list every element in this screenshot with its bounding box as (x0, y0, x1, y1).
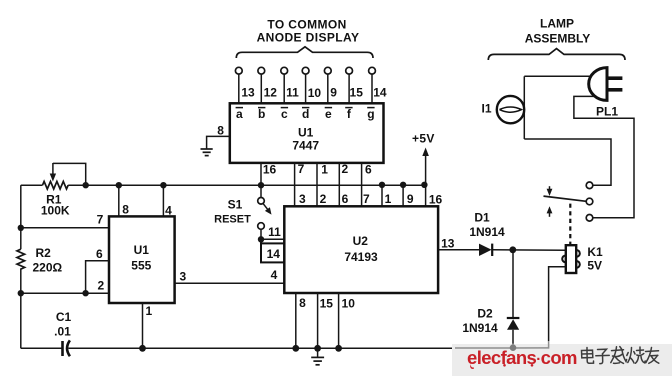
junction dot S1 pin11 (258, 236, 264, 242)
svg-text:16: 16 (429, 192, 443, 206)
svg-text:4: 4 (271, 268, 278, 282)
svg-text:3: 3 (180, 269, 187, 283)
svg-text:7: 7 (363, 192, 370, 206)
svg-text:3: 3 (299, 192, 306, 206)
pin label a-bar (236, 107, 243, 121)
svg-text:1: 1 (321, 163, 328, 177)
chinese character zi (596, 349, 609, 363)
junction dot U2 pin8 rail (292, 345, 299, 352)
wire 7447 pin 8 to ground (207, 136, 230, 148)
relay contact circle pole (586, 198, 593, 205)
wire terminal 6 to U1 pin 15 (348, 74, 350, 103)
wire U2 pin 13 to D1 (438, 249, 479, 251)
timer U1 555 box (109, 216, 175, 303)
switch S1 bottom contact circle (258, 223, 265, 230)
terminal node circle 4 (302, 67, 309, 74)
svg-text:b: b (258, 107, 265, 121)
wire terminal 2 to U1 pin 12 (260, 74, 262, 103)
wire terminal 1 to U1 pin 13 (238, 74, 240, 103)
svg-text:a: a (236, 107, 243, 121)
svg-text:ASSEMBLY: ASSEMBLY (525, 32, 591, 46)
svg-text:LAMP: LAMP (540, 17, 574, 31)
switch S1 top contact circle (258, 198, 265, 205)
wire D2 gray segment (512, 344, 514, 348)
junction dot 555 pin4 (160, 182, 166, 188)
svg-text:8: 8 (299, 296, 306, 310)
ground rail gray segment under watermark (455, 347, 549, 349)
pin label g-bar (367, 107, 374, 121)
svg-text:c: c (281, 107, 288, 121)
svg-text:555: 555 (131, 259, 151, 273)
wire 7447 pin 2 to U2 pin 6 (338, 163, 340, 206)
svg-text:U2: U2 (353, 234, 369, 248)
junction dot D2 rail gray (510, 344, 517, 351)
svg-text:1N914: 1N914 (462, 321, 498, 335)
terminal node circle 2 (258, 67, 265, 74)
caption TO COMMON ANODE DISPLAY (257, 18, 360, 45)
+5V arrow (422, 148, 429, 185)
wire bus to 555 pin 8 (118, 185, 120, 216)
armature motion arrow up (547, 206, 553, 217)
svg-text:1: 1 (385, 192, 392, 206)
svg-text:13: 13 (441, 237, 455, 251)
ground rail middle segment (69, 347, 459, 349)
wire U2 pin 10 down (338, 293, 340, 348)
wire +5V bus to U2 pin 16 (425, 185, 427, 207)
svg-text:15: 15 (320, 297, 334, 311)
pin label c-bar (281, 107, 288, 121)
wire D1 to relay coil (492, 249, 566, 251)
svg-text:6: 6 (96, 247, 103, 261)
junction dot U2 pin15 rail (314, 345, 321, 352)
svg-text:+5V: +5V (412, 132, 435, 146)
wire R1 wiper loop (53, 163, 86, 185)
wire bus to 555 pin 4 (162, 185, 164, 216)
svg-text:elecfans·com: elecfans·com (467, 347, 577, 368)
junction dot pin2 tap (18, 290, 24, 296)
terminal node circle 5 (324, 67, 331, 74)
svg-text:14: 14 (267, 247, 281, 261)
svg-text:7: 7 (97, 212, 104, 226)
svg-text:11: 11 (286, 85, 299, 99)
svg-text:220Ω: 220Ω (32, 260, 62, 274)
wire D1 node down to D2 (512, 250, 514, 318)
pin label d-bar (302, 107, 309, 121)
svg-text:D2: D2 (477, 306, 493, 320)
svg-text:5V: 5V (587, 258, 602, 272)
brace over lamp assembly (488, 49, 625, 60)
svg-text:10: 10 (308, 86, 322, 100)
svg-text:PL1: PL1 (596, 105, 618, 119)
svg-text:14: 14 (373, 85, 387, 99)
svg-text:8: 8 (217, 124, 224, 138)
wire 555 pin 1 down (142, 303, 144, 348)
plug PL1 body (589, 68, 607, 101)
junction dot U2 pin16 bus (421, 182, 427, 188)
wire terminal 4 to U1 pin 10 (305, 74, 307, 103)
wire 555 pin 2 (21, 292, 109, 294)
relay contact circle NC (586, 182, 593, 189)
svg-text:11: 11 (268, 225, 281, 239)
svg-text:74193: 74193 (344, 250, 378, 264)
chinese character you (646, 348, 659, 364)
relay armature arm (544, 196, 587, 201)
svg-text:100K: 100K (41, 204, 70, 218)
relay contact circle NO (586, 215, 593, 222)
svg-text:I1: I1 (481, 102, 491, 116)
wire lamp bottom to NC contact (524, 139, 611, 185)
red swoosh marks (470, 364, 533, 369)
terminal node circle 7 (369, 67, 376, 74)
wire U2 pin 8 down (295, 293, 297, 348)
resistor R1 zigzag (43, 181, 69, 189)
watermark bar (452, 344, 672, 376)
resistor R2 zigzag (17, 249, 25, 269)
svg-text:13: 13 (241, 85, 255, 99)
wire 555 pin 3 to U2 pin 4 (175, 282, 285, 284)
counter U2 74193 box (284, 206, 438, 293)
caption LAMP ASSEMBLY (525, 17, 591, 46)
junction dot D1 node (509, 246, 516, 253)
diode D2 (507, 318, 520, 330)
pin label f-bar (345, 107, 352, 121)
brace over display terminals (236, 47, 373, 58)
svg-text:.01: .01 (54, 324, 71, 338)
switch S1 arm with arrowhead (263, 204, 271, 215)
wire main bus left segment (21, 184, 43, 186)
svg-text:9: 9 (330, 85, 337, 99)
pin 14 stub box of U2 (261, 243, 284, 262)
svg-text:K1: K1 (587, 245, 603, 259)
svg-text:8: 8 (122, 202, 129, 216)
svg-text:15: 15 (350, 85, 364, 99)
wire plug to NO contact (574, 96, 634, 217)
lamp I1 (497, 96, 524, 123)
wire 555 pin 6 branch (86, 261, 109, 293)
wire lamp top to plug PL1 (524, 75, 591, 77)
diode D1 (479, 244, 492, 256)
svg-text:6: 6 (365, 163, 372, 177)
wire U2 pin 15 down (317, 293, 319, 348)
junction dot U2 pin10 rail (335, 345, 342, 352)
terminal node circle 3 (281, 67, 288, 74)
junction dot 555 pin8 (116, 182, 122, 188)
svg-text:R2: R2 (36, 246, 52, 260)
wire 7447 pin 6 to U2 pin 7 (361, 163, 363, 206)
wire S1 to U2 pin 11 / pin 14 (260, 229, 262, 243)
chinese character shao (627, 347, 645, 363)
wire 555 pin 7 (21, 227, 109, 229)
junction dot 7447 pin16 bus (258, 182, 264, 188)
plug PL1 prong 2 (607, 88, 622, 92)
svg-text:D1: D1 (474, 211, 490, 225)
left rail lower segment (20, 268, 22, 348)
wire terminal 7 to U1 pin 14 (371, 74, 373, 103)
junction dot 555 pin1 ground rail (139, 345, 146, 352)
svg-text:7447: 7447 (292, 138, 319, 152)
ground rail left segment (21, 347, 62, 349)
left rail upper segment (20, 185, 22, 249)
ground symbol at 7447 pin 8 (201, 149, 213, 156)
junction dot U2 pin1 bus (379, 182, 385, 188)
svg-text:g: g (367, 107, 374, 121)
wire K1 to ground rail (549, 267, 566, 341)
svg-text:9: 9 (407, 192, 414, 206)
svg-text:12: 12 (264, 85, 278, 99)
wire 7447 pin 1 to U2 pin 2 (316, 163, 318, 206)
wire +5V bus to U2 pin 9 (402, 185, 404, 207)
svg-text:ANODE DISPLAY: ANODE DISPLAY (257, 30, 360, 44)
pin label b-bar (258, 107, 265, 121)
wire terminal 5 to U1 pin 9 (327, 74, 329, 103)
armature motion arrow down (547, 186, 553, 196)
svg-text:1: 1 (145, 304, 152, 318)
junction dot pin7 tap (18, 225, 24, 231)
junction dot U2 pin9 bus (400, 182, 406, 188)
chinese character fa (611, 347, 627, 364)
wire D2 to ground rail (512, 330, 514, 344)
wire K1 gray segment (548, 341, 550, 349)
wire terminal 3 to U1 pin 11 (283, 74, 285, 103)
svg-text:10: 10 (342, 297, 356, 311)
capacitor C1 (63, 340, 70, 356)
svg-text:C1: C1 (56, 310, 72, 324)
svg-text:d: d (302, 107, 309, 121)
junction dot pin6-pin2 (82, 290, 88, 296)
op-amp U1 7447 decoder box (230, 103, 384, 163)
plug PL1 prong 1 (607, 76, 622, 80)
ground symbol at bottom rail (311, 348, 324, 365)
terminal node circle 6 (346, 67, 353, 74)
mechanical dashed link to K1 (569, 204, 571, 244)
svg-text:RESET: RESET (214, 213, 251, 225)
svg-text:7: 7 (298, 162, 305, 176)
wire main bus R1 to +5V drop (68, 184, 425, 186)
wire 7447 pin 7 to U2 pin 3 (294, 163, 296, 206)
svg-text:S1: S1 (228, 198, 243, 212)
svg-text:16: 16 (263, 163, 277, 177)
junction dot R1 loop (83, 182, 89, 188)
wire lamp vertical (523, 76, 525, 139)
svg-text:2: 2 (320, 192, 327, 206)
chinese character dian (582, 348, 594, 364)
svg-text:U1: U1 (134, 243, 150, 257)
wire +5V bus to U2 pin 1 (381, 185, 383, 207)
relay K1 coil (562, 245, 580, 273)
terminal node circle 1 (235, 67, 242, 74)
svg-text:2: 2 (97, 278, 104, 292)
svg-text:e: e (325, 107, 332, 121)
wire bus to switch S1 (260, 185, 262, 197)
svg-text:6: 6 (342, 192, 349, 206)
svg-text:2: 2 (342, 162, 349, 176)
wire 7447 pin 16 down (260, 163, 262, 185)
pin label e-bar (325, 107, 332, 121)
R1 wiper arrow (50, 163, 56, 182)
wire U2 pin 11 (261, 238, 284, 240)
svg-text:1N914: 1N914 (469, 225, 505, 239)
